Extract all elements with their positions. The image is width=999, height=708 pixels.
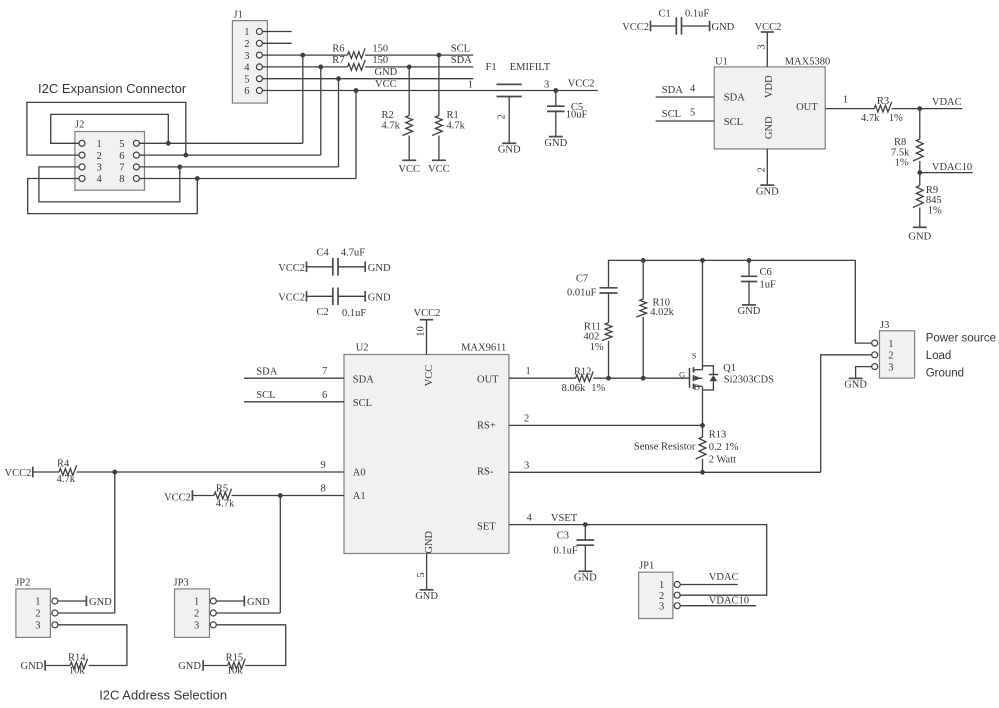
svg-text:MAX9611: MAX9611: [461, 342, 506, 353]
svg-text:1: 1: [468, 80, 473, 91]
svg-text:Power source: Power source: [926, 333, 996, 345]
svg-text:1%: 1%: [590, 342, 604, 353]
svg-text:150: 150: [372, 55, 388, 66]
svg-text:6: 6: [119, 151, 124, 162]
svg-text:SET: SET: [477, 522, 496, 533]
svg-text:C2: C2: [317, 307, 329, 318]
svg-text:R4: R4: [57, 459, 70, 470]
svg-text:1: 1: [888, 339, 893, 350]
svg-text:4.7k: 4.7k: [382, 121, 401, 132]
svg-text:2: 2: [888, 351, 893, 362]
svg-text:J2: J2: [75, 120, 84, 131]
svg-text:VCC2: VCC2: [278, 263, 305, 274]
svg-text:Ground: Ground: [926, 368, 964, 380]
svg-text:JP3: JP3: [174, 577, 189, 588]
svg-text:VCC: VCC: [424, 365, 435, 387]
svg-text:3: 3: [97, 163, 102, 174]
svg-text:402: 402: [584, 331, 600, 342]
svg-text:GND: GND: [247, 597, 270, 608]
svg-text:GND: GND: [21, 661, 44, 672]
svg-text:6: 6: [244, 86, 249, 97]
svg-text:2: 2: [97, 151, 102, 162]
svg-text:2: 2: [244, 39, 249, 50]
svg-text:GND: GND: [738, 306, 761, 317]
svg-text:Sense Resistor: Sense Resistor: [634, 441, 696, 452]
svg-text:R3: R3: [877, 96, 889, 107]
svg-text:VCC2: VCC2: [568, 78, 595, 89]
svg-text:R5: R5: [216, 483, 228, 494]
svg-text:GND: GND: [89, 597, 112, 608]
svg-text:5: 5: [119, 139, 124, 150]
svg-text:VCC2: VCC2: [414, 308, 441, 319]
svg-text:3: 3: [888, 362, 893, 373]
svg-text:3: 3: [524, 460, 529, 471]
svg-text:SCL: SCL: [451, 43, 470, 54]
svg-text:SCL: SCL: [662, 109, 681, 120]
svg-text:VSET: VSET: [551, 513, 578, 524]
svg-text:GND: GND: [498, 145, 521, 156]
svg-text:1uF: 1uF: [760, 279, 777, 290]
svg-text:VCC2: VCC2: [622, 22, 649, 33]
svg-text:I2C Expansion Connector: I2C Expansion Connector: [38, 81, 187, 96]
svg-text:RS+: RS+: [477, 421, 496, 432]
svg-text:7: 7: [119, 163, 124, 174]
svg-text:2: 2: [35, 609, 40, 620]
svg-text:4.02k: 4.02k: [650, 307, 674, 318]
svg-text:1: 1: [244, 27, 249, 38]
svg-text:SCL: SCL: [353, 398, 372, 409]
svg-text:1%: 1%: [591, 383, 605, 394]
svg-text:C3: C3: [557, 531, 569, 542]
svg-text:10k: 10k: [227, 666, 244, 677]
svg-text:GND: GND: [574, 573, 597, 584]
svg-text:8: 8: [321, 484, 326, 495]
svg-text:4.7uF: 4.7uF: [341, 247, 365, 258]
svg-text:2 Watt: 2 Watt: [709, 455, 736, 466]
svg-text:4: 4: [527, 513, 533, 524]
svg-text:4.7k: 4.7k: [861, 113, 880, 124]
svg-text:6: 6: [322, 390, 327, 401]
svg-text:C7: C7: [576, 273, 588, 284]
svg-text:150: 150: [372, 43, 388, 54]
svg-text:R1: R1: [447, 110, 459, 121]
svg-text:RS-: RS-: [477, 467, 494, 478]
svg-text:1: 1: [97, 139, 102, 150]
svg-text:GND: GND: [415, 591, 438, 602]
svg-text:U2: U2: [356, 342, 369, 353]
svg-text:2: 2: [194, 609, 199, 620]
svg-text:VDAC: VDAC: [932, 97, 962, 108]
svg-text:4: 4: [690, 84, 696, 95]
svg-text:VDD: VDD: [764, 75, 775, 98]
svg-text:5: 5: [690, 108, 695, 119]
svg-text:GND: GND: [178, 661, 201, 672]
svg-text:GND: GND: [368, 292, 391, 303]
svg-text:0.1uF: 0.1uF: [342, 308, 366, 319]
svg-text:1%: 1%: [895, 158, 909, 169]
svg-text:4.7k: 4.7k: [57, 474, 76, 485]
svg-text:GND: GND: [424, 531, 435, 554]
svg-text:C4: C4: [317, 247, 330, 258]
svg-text:C6: C6: [760, 267, 772, 278]
svg-text:0.1uF: 0.1uF: [685, 9, 709, 20]
svg-text:GND: GND: [368, 263, 391, 274]
svg-text:VCC: VCC: [428, 164, 450, 175]
svg-text:2: 2: [756, 167, 767, 172]
svg-text:U1: U1: [715, 56, 728, 67]
svg-text:R15: R15: [226, 653, 244, 664]
svg-text:SDA: SDA: [353, 375, 374, 386]
svg-text:GND: GND: [764, 116, 775, 139]
svg-text:VCC: VCC: [375, 79, 397, 90]
svg-text:10uF: 10uF: [566, 110, 588, 121]
svg-text:J1: J1: [234, 10, 243, 21]
svg-text:GND: GND: [756, 186, 779, 197]
svg-text:SCL: SCL: [724, 117, 743, 128]
svg-text:A0: A0: [353, 468, 366, 479]
svg-text:1: 1: [843, 95, 848, 106]
svg-text:SDA: SDA: [256, 366, 277, 377]
svg-text:GND: GND: [375, 67, 398, 78]
svg-text:VDAC10: VDAC10: [932, 162, 972, 173]
svg-text:GND: GND: [844, 380, 867, 391]
svg-text:C1: C1: [659, 9, 671, 20]
svg-text:R13: R13: [709, 430, 727, 441]
svg-text:10: 10: [416, 326, 427, 337]
svg-text:VCC2: VCC2: [5, 468, 32, 479]
svg-text:VCC2: VCC2: [164, 492, 191, 503]
svg-text:3: 3: [544, 80, 549, 91]
svg-text:R2: R2: [382, 110, 394, 121]
svg-text:R14: R14: [68, 653, 86, 664]
svg-text:0.2 1%: 0.2 1%: [709, 442, 739, 453]
svg-text:EMIFILT: EMIFILT: [510, 62, 551, 73]
svg-text:VDAC: VDAC: [709, 572, 739, 583]
svg-text:JP2: JP2: [15, 577, 30, 588]
svg-text:VCC2: VCC2: [278, 292, 305, 303]
svg-text:MAX5380: MAX5380: [785, 56, 831, 67]
svg-text:8: 8: [119, 174, 124, 185]
svg-text:A1: A1: [353, 491, 366, 502]
svg-text:4.7k: 4.7k: [216, 498, 235, 509]
svg-text:VDAC10: VDAC10: [709, 595, 749, 606]
svg-text:3: 3: [35, 621, 40, 632]
svg-text:10k: 10k: [69, 666, 86, 677]
svg-text:4.7k: 4.7k: [447, 121, 466, 132]
svg-text:SDA: SDA: [451, 55, 472, 66]
svg-text:SCL: SCL: [256, 390, 275, 401]
svg-text:2: 2: [524, 413, 529, 424]
svg-text:3: 3: [194, 621, 199, 632]
svg-text:0.01uF: 0.01uF: [567, 288, 597, 299]
svg-text:JP1: JP1: [639, 561, 654, 572]
svg-text:9: 9: [321, 460, 326, 471]
svg-text:2: 2: [659, 591, 664, 602]
svg-text:5: 5: [416, 572, 427, 577]
svg-text:1: 1: [194, 597, 199, 608]
svg-text:Si2303CDS: Si2303CDS: [724, 375, 774, 386]
svg-text:G: G: [679, 369, 685, 379]
svg-text:SDA: SDA: [724, 93, 745, 104]
svg-text:GND: GND: [712, 22, 735, 33]
svg-text:3: 3: [244, 51, 249, 62]
svg-text:R12: R12: [574, 367, 592, 378]
svg-text:1: 1: [35, 597, 40, 608]
svg-text:1: 1: [526, 366, 531, 377]
svg-text:SDA: SDA: [662, 85, 683, 96]
svg-text:7: 7: [322, 366, 327, 377]
svg-text:4: 4: [244, 63, 250, 74]
svg-text:F1: F1: [486, 62, 497, 73]
svg-text:Load: Load: [926, 350, 952, 362]
svg-text:2: 2: [497, 114, 508, 119]
svg-text:0.1uF: 0.1uF: [554, 546, 578, 557]
svg-text:R7: R7: [332, 55, 344, 66]
svg-text:GND: GND: [908, 231, 931, 242]
svg-text:5: 5: [244, 74, 249, 85]
svg-text:1%: 1%: [928, 205, 942, 216]
svg-text:S: S: [692, 350, 697, 360]
svg-text:1: 1: [659, 580, 664, 591]
svg-text:1%: 1%: [889, 113, 903, 124]
svg-text:Q1: Q1: [723, 363, 736, 374]
svg-text:3: 3: [659, 601, 664, 612]
svg-text:VCC: VCC: [398, 164, 420, 175]
svg-text:845: 845: [926, 195, 942, 206]
svg-text:OUT: OUT: [477, 375, 499, 386]
svg-text:J3: J3: [880, 320, 889, 331]
svg-text:8.06k: 8.06k: [562, 383, 586, 394]
svg-text:D: D: [694, 382, 700, 392]
svg-text:I2C Address Selection: I2C Address Selection: [99, 688, 227, 703]
svg-text:3: 3: [756, 44, 767, 49]
svg-text:GND: GND: [544, 138, 567, 149]
svg-text:4: 4: [97, 174, 103, 185]
svg-text:OUT: OUT: [796, 102, 818, 113]
svg-text:R6: R6: [332, 43, 344, 54]
